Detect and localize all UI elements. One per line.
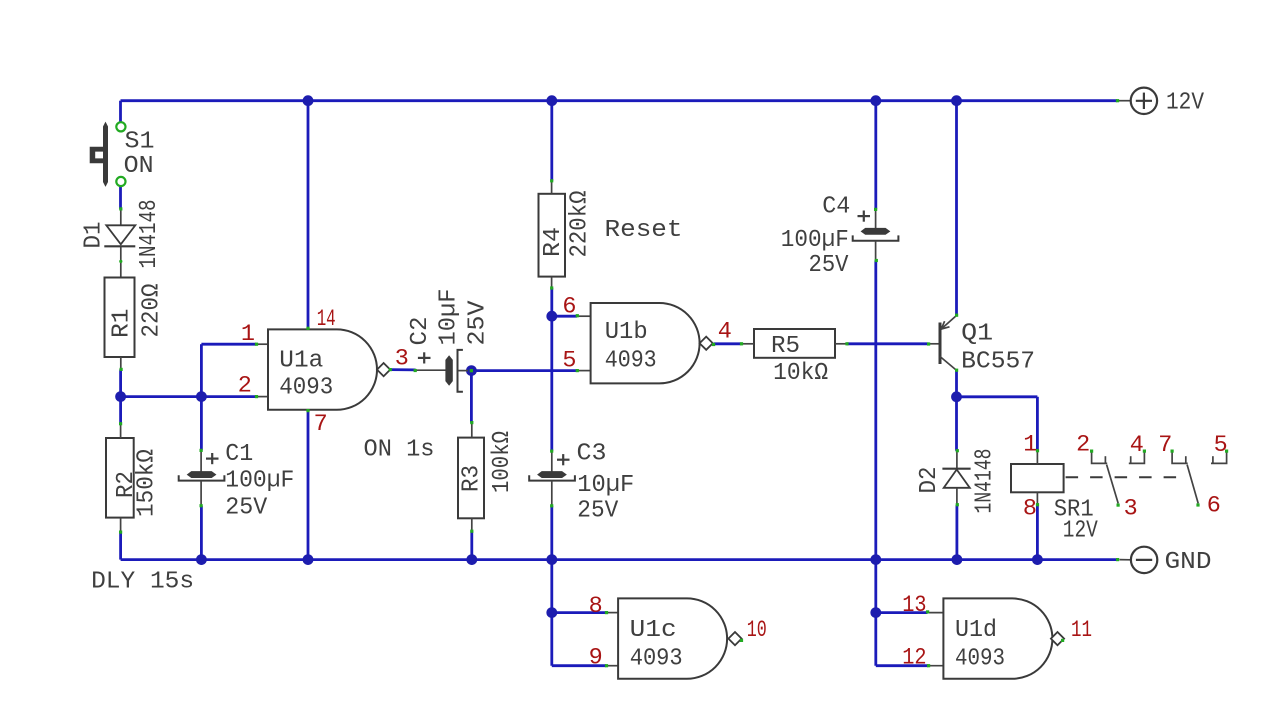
svg-text:6: 6	[1207, 493, 1221, 520]
label R3	[459, 465, 486, 492]
label S1	[125, 128, 155, 155]
wire C4 to GND rail	[874, 261, 877, 560]
relay coil SR1	[1011, 451, 1184, 505]
svg-text:5: 5	[562, 347, 576, 374]
wire C1 top	[200, 397, 203, 451]
svg-text:U1a: U1a	[279, 348, 323, 375]
label R4	[540, 227, 567, 257]
svg-text:25V: 25V	[465, 300, 492, 345]
label DLY 15s	[91, 569, 194, 596]
wire collector node to SR1 pin1	[957, 397, 1038, 451]
diode D1	[104, 209, 135, 278]
wire U1d pin12 horizontal	[876, 664, 929, 667]
wire S1 top drop	[119, 101, 122, 123]
label ON	[124, 153, 154, 180]
svg-text:C4: C4	[822, 194, 850, 221]
label C3	[577, 441, 607, 468]
op-amp gate U1d	[927, 598, 1064, 678]
svg-text:100kΩ: 100kΩ	[489, 431, 516, 493]
label C1	[225, 441, 253, 468]
junction GND rail at SR1	[1032, 554, 1043, 565]
label U1c	[630, 617, 677, 644]
wire C2 to U1b pin5	[467, 369, 577, 372]
junction GND rail at C1	[196, 554, 207, 565]
pin number 10	[747, 617, 767, 644]
ground terminal GND	[1120, 547, 1158, 573]
label 10uF of C3	[577, 472, 634, 499]
label 100kohm of R3	[489, 431, 516, 493]
wire U1d pin13 horizontal	[876, 611, 928, 614]
svg-text:10kΩ: 10kΩ	[773, 360, 828, 387]
label 10uF of C2	[436, 289, 463, 346]
label U1d	[955, 617, 997, 644]
svg-text:25V: 25V	[809, 252, 849, 279]
relay contact B pins 7 5 6	[1172, 451, 1227, 503]
junction top rail at U1a pin14	[303, 95, 314, 106]
svg-text:10: 10	[747, 617, 767, 644]
label 4093 of U1d	[955, 646, 1005, 673]
wire U1b output pin4 to R5	[714, 342, 742, 345]
resistor R4	[539, 181, 566, 288]
svg-text:8: 8	[589, 593, 603, 620]
svg-text:150kΩ: 150kΩ	[134, 449, 161, 517]
label 4093 of U1a	[279, 375, 333, 402]
junction top rail at C4	[870, 95, 881, 106]
op-amp gate U1a	[256, 329, 390, 409]
svg-text:10µF: 10µF	[436, 289, 463, 346]
junction top rail at R4	[546, 95, 557, 106]
label C4	[822, 194, 850, 221]
pin number 7	[314, 411, 328, 438]
pin number 14	[317, 306, 336, 333]
label 4093 of U1b	[605, 347, 657, 374]
junction GND rail at C4	[870, 554, 881, 565]
svg-text:3: 3	[1124, 495, 1138, 522]
label 25V of C3	[577, 498, 618, 525]
svg-text:R4: R4	[540, 227, 567, 257]
svg-text:C1: C1	[225, 441, 253, 468]
pin number 3 of SR1	[1124, 495, 1138, 522]
svg-text:4093: 4093	[279, 375, 333, 402]
svg-text:10µF: 10µF	[577, 472, 634, 499]
svg-text:8: 8	[1023, 496, 1037, 523]
svg-text:220Ω: 220Ω	[138, 283, 165, 337]
wire U1a pin2 horizontal	[121, 395, 257, 398]
label 25V of C2	[465, 300, 492, 345]
label SR1	[1054, 497, 1094, 524]
capacitor C1	[179, 450, 225, 505]
pin number 13	[902, 592, 926, 619]
label 1N4148 of D1	[136, 200, 163, 269]
wire R2 to GND rail	[119, 532, 122, 560]
label 12V of SR1	[1063, 517, 1098, 544]
pin number 2 of SR1	[1076, 432, 1090, 459]
wire 12V rail to Q1 emitter	[955, 101, 958, 316]
pin number 6	[562, 293, 576, 320]
pin number 7 of SR1	[1158, 432, 1172, 459]
wire top 12V rail	[121, 99, 1118, 102]
junction Q1 collector node	[951, 391, 962, 402]
svg-text:U1c: U1c	[630, 617, 677, 644]
svg-text:2: 2	[1076, 432, 1090, 459]
svg-text:R1: R1	[109, 309, 136, 339]
label GND net	[1165, 549, 1212, 576]
svg-text:4: 4	[718, 318, 732, 345]
pin tips green	[119, 99, 1228, 667]
label 12V net	[1166, 90, 1204, 117]
svg-text:R3: R3	[459, 465, 486, 492]
svg-text:BC557: BC557	[961, 349, 1035, 376]
pin number 11	[1071, 617, 1092, 644]
wire U1b pin6 horizontal	[552, 315, 577, 318]
wire R5 to Q1 base	[847, 342, 929, 345]
junction top rail at Q1 emitter	[951, 95, 962, 106]
svg-text:12: 12	[902, 645, 926, 672]
wire S1 to D1	[119, 186, 122, 209]
junction node B R4 pin6	[546, 311, 557, 322]
op-amp gate U1b	[577, 303, 713, 383]
capacitor C2	[416, 350, 468, 392]
svg-text:D1: D1	[81, 222, 108, 249]
label 100uF of C4	[781, 227, 849, 254]
pin number 5	[562, 347, 576, 374]
label 220kohm of R4	[567, 190, 594, 257]
svg-text:C3: C3	[577, 441, 607, 468]
label R2	[113, 471, 140, 498]
label 100uF of C1	[225, 467, 294, 494]
switch S1	[90, 122, 126, 187]
svg-text:11: 11	[1071, 617, 1092, 644]
svg-text:14: 14	[317, 306, 336, 333]
resistor R3	[458, 423, 484, 532]
label 10kohm of R5	[773, 360, 828, 387]
label 25V of C1	[225, 495, 267, 522]
svg-text:DLY 15s: DLY 15s	[91, 569, 194, 596]
wire U1c riser	[550, 560, 553, 666]
capacitor C3	[529, 451, 575, 506]
svg-text:4093: 4093	[955, 646, 1005, 673]
svg-text:6: 6	[562, 293, 576, 320]
pin number 4 of SR1	[1130, 432, 1144, 459]
wire Q1 collector down	[955, 370, 958, 451]
wire U1a output pin3 to C2	[390, 368, 416, 371]
svg-text:R5: R5	[771, 333, 800, 360]
junction node A C2 R3	[466, 365, 477, 376]
label R5	[771, 333, 800, 360]
svg-text:7: 7	[1158, 432, 1172, 459]
pin number 2	[238, 373, 252, 400]
svg-text:2: 2	[238, 373, 252, 400]
svg-text:4093: 4093	[605, 347, 657, 374]
svg-text:12V: 12V	[1063, 517, 1098, 544]
svg-text:5: 5	[1214, 432, 1228, 459]
junction C1 top node	[196, 391, 207, 402]
junction U1c pin8 node	[546, 607, 557, 618]
wire 12V rail to C4	[874, 101, 877, 210]
wire R3 to GND rail	[470, 531, 473, 559]
op-amp gate U1c	[606, 598, 742, 678]
svg-text:3: 3	[395, 346, 409, 373]
label U1b	[605, 319, 648, 346]
wire R1 to R2 through node	[119, 369, 122, 423]
pin number 3	[395, 346, 409, 373]
label U1a	[279, 348, 323, 375]
label 220ohm of R1	[138, 283, 165, 337]
label 4093 of U1c	[630, 646, 683, 673]
svg-text:Reset: Reset	[605, 217, 683, 244]
supply terminal 12V	[1119, 88, 1157, 114]
capacitor C4	[853, 209, 899, 260]
svg-text:1: 1	[241, 321, 255, 348]
svg-text:220kΩ: 220kΩ	[567, 190, 594, 257]
pin number 6 of SR1	[1207, 493, 1221, 520]
wire U1c pin9 horizontal	[552, 664, 606, 667]
label C2	[407, 317, 434, 346]
wire U1c pin8 horizontal	[552, 611, 606, 614]
wire D2 to GND rail	[956, 505, 959, 560]
label Q1	[961, 321, 993, 348]
svg-text:Q1: Q1	[961, 321, 993, 348]
svg-text:12V: 12V	[1166, 90, 1204, 117]
resistor R2	[106, 424, 134, 532]
label R1	[109, 309, 136, 339]
label D2	[916, 467, 943, 494]
wire R4 to C3 through node B	[550, 288, 553, 451]
wire SR1 pin8 to GND rail	[1036, 505, 1039, 560]
wire 12V rail to R4	[550, 101, 553, 181]
resistor R1	[105, 278, 135, 370]
wire C1 bottom	[200, 506, 203, 560]
svg-text:U1d: U1d	[955, 617, 997, 644]
svg-text:25V: 25V	[577, 498, 618, 525]
label Reset	[605, 217, 683, 244]
pin number 1 of SR1	[1023, 432, 1037, 459]
diode D2	[942, 451, 970, 505]
wire node A to R3	[470, 371, 473, 423]
pin number 8 of SR1	[1023, 496, 1037, 523]
label 25V of C4	[809, 252, 849, 279]
svg-text:1N4148: 1N4148	[972, 449, 999, 514]
label 1N4148 of D2	[972, 449, 999, 514]
svg-text:C2: C2	[407, 317, 434, 346]
svg-text:25V: 25V	[225, 495, 267, 522]
junction GND rail at D2	[952, 554, 963, 565]
wire U1d riser	[874, 560, 877, 666]
svg-text:4093: 4093	[630, 646, 683, 673]
wire bottom GND rail	[121, 558, 1118, 561]
resistor R5	[742, 329, 847, 358]
junction U1d pin13 node	[870, 607, 881, 618]
svg-text:4: 4	[1130, 432, 1144, 459]
label BC557 of Q1	[961, 349, 1035, 376]
label ON 1s	[364, 436, 435, 463]
pin number 1	[241, 321, 255, 348]
svg-text:1N4148: 1N4148	[136, 200, 163, 269]
wire U1a pin1 riser	[200, 344, 203, 396]
svg-text:GND: GND	[1165, 549, 1212, 576]
pin number 8	[589, 593, 603, 620]
svg-text:7: 7	[314, 411, 328, 438]
transistor Q1	[929, 315, 957, 370]
pin number 5 of SR1	[1214, 432, 1228, 459]
relay contact A pins 2 4 3	[1092, 451, 1145, 503]
svg-text:S1: S1	[125, 128, 155, 155]
wire U1a pin14 riser	[307, 101, 310, 329]
wire C3 to GND rail	[550, 506, 553, 560]
junction GND rail at pin7	[303, 554, 314, 565]
wire U1a pin1 horizontal	[201, 343, 256, 346]
label D1	[81, 222, 108, 249]
svg-text:9: 9	[589, 645, 603, 672]
junction node R1 R2 pin2	[115, 391, 126, 402]
junction GND rail at R3	[466, 554, 477, 565]
svg-text:1: 1	[1023, 432, 1037, 459]
pin number 4	[718, 318, 732, 345]
label 150kohm of R2	[134, 449, 161, 517]
wire U1a pin7 riser	[307, 410, 310, 559]
pin number 12	[902, 645, 926, 672]
svg-text:D2: D2	[916, 467, 943, 494]
junction GND rail at C3	[546, 554, 557, 565]
svg-text:13: 13	[902, 592, 926, 619]
svg-text:ON 1s: ON 1s	[364, 436, 435, 463]
svg-text:100µF: 100µF	[225, 467, 294, 494]
svg-text:ON: ON	[124, 153, 154, 180]
svg-text:100µF: 100µF	[781, 227, 849, 254]
svg-text:U1b: U1b	[605, 319, 648, 346]
pin number 9	[589, 645, 603, 672]
